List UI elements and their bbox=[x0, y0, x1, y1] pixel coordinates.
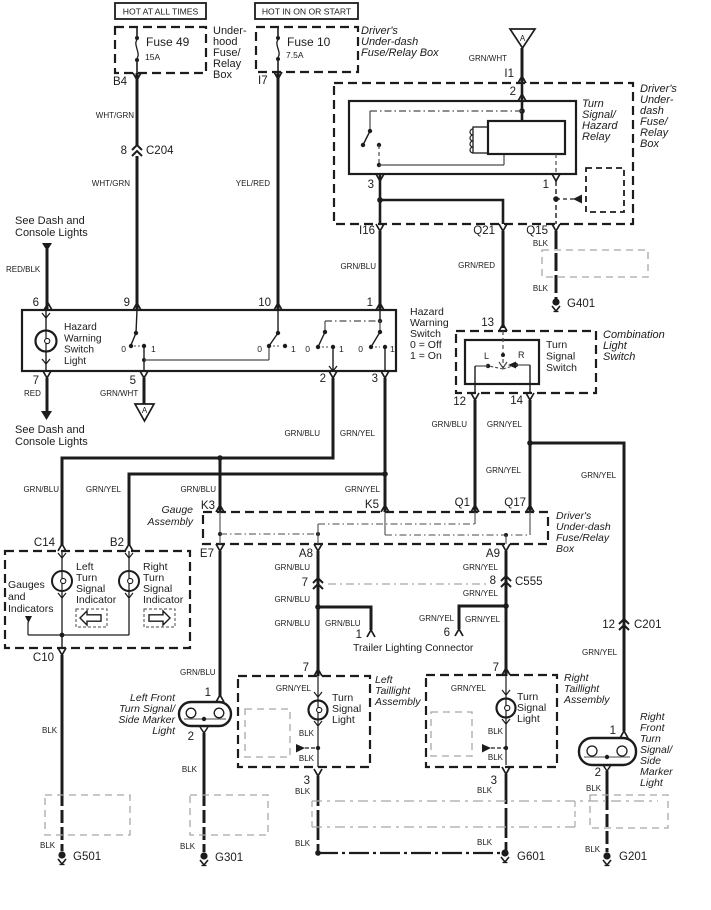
right front turn signal/side marker light bbox=[579, 738, 636, 765]
node GRN/BLU to K3 bbox=[217, 455, 223, 461]
wire 13 label bbox=[481, 317, 507, 331]
pin 3 bbox=[372, 371, 389, 385]
svg-text:Light: Light bbox=[517, 713, 540, 725]
svg-text:GRN/YEL: GRN/YEL bbox=[451, 684, 487, 693]
hazard feed rail from pin 1 bbox=[325, 310, 382, 323]
ground G601 bbox=[501, 849, 508, 856]
wire GRN/YEL to trailer connector 6 bbox=[419, 606, 506, 639]
svg-text:BLK: BLK bbox=[299, 754, 315, 763]
svg-text:R: R bbox=[518, 350, 525, 360]
wire pin 2 into relay bbox=[510, 83, 526, 121]
svg-text:BLK: BLK bbox=[180, 842, 196, 851]
pin 3 left taillight bbox=[304, 769, 322, 787]
under-hood fuse/relay box (dashed) bbox=[115, 27, 206, 73]
svg-text:GRN/BLU: GRN/BLU bbox=[431, 420, 467, 429]
svg-text:1: 1 bbox=[205, 687, 211, 699]
svg-text:Warning: Warning bbox=[64, 333, 102, 344]
svg-text:BLK: BLK bbox=[295, 787, 311, 796]
branch arrow to other circuit bbox=[556, 195, 584, 204]
wire RED/BLK to hazard pin 6 bbox=[6, 249, 47, 310]
svg-text:Light: Light bbox=[640, 777, 664, 789]
ground G301 bbox=[200, 852, 207, 859]
relay switch contact bbox=[377, 143, 381, 147]
connector 7 on A8 wire bbox=[302, 577, 323, 589]
pin 1 left front light bbox=[205, 687, 224, 702]
pin 7 right taillight bbox=[493, 662, 510, 675]
svg-text:K3: K3 bbox=[201, 500, 215, 512]
svg-text:Box: Box bbox=[213, 69, 232, 81]
svg-text:GRN/YEL: GRN/YEL bbox=[581, 471, 617, 480]
other-circuit faint box (G501) bbox=[45, 795, 130, 835]
connector Q1 bbox=[455, 497, 479, 512]
pin 5 bbox=[130, 371, 148, 387]
connector I1 at box edge bbox=[518, 76, 526, 83]
right taillight turn signal bulb bbox=[451, 675, 516, 724]
left turn signal indicator bbox=[52, 551, 72, 635]
svg-text:GRN/YEL: GRN/YEL bbox=[465, 615, 501, 624]
wire BLK left front light to G301 bbox=[180, 733, 204, 852]
wire GRN/BLU E7 to left front light bbox=[180, 551, 220, 696]
svg-text:BLK: BLK bbox=[477, 838, 493, 847]
connector I7 bbox=[258, 72, 282, 87]
svg-text:2: 2 bbox=[320, 373, 326, 385]
node pin3/Q21 bbox=[377, 197, 383, 203]
node GRN/YEL branch to C201 bbox=[527, 440, 533, 446]
other-circuit dashed sub-box bbox=[586, 168, 624, 212]
svg-text:Light: Light bbox=[64, 356, 86, 367]
svg-text:BLK: BLK bbox=[488, 753, 504, 762]
svg-text:GRN/YEL: GRN/YEL bbox=[419, 614, 455, 623]
svg-text:BLK: BLK bbox=[585, 845, 601, 854]
svg-text:9: 9 bbox=[124, 297, 130, 309]
svg-text:BLK: BLK bbox=[40, 841, 56, 850]
svg-text:GRN/YEL: GRN/YEL bbox=[463, 563, 499, 572]
pin 2 left front light bbox=[188, 727, 208, 743]
svg-text:GRN/YEL: GRN/YEL bbox=[345, 485, 381, 494]
svg-text:GRN/BLU: GRN/BLU bbox=[284, 429, 320, 438]
node trailer branch right bbox=[503, 603, 509, 609]
svg-text:Light: Light bbox=[152, 725, 176, 737]
relay armature box bbox=[488, 121, 565, 154]
svg-text:13: 13 bbox=[481, 317, 494, 329]
svg-text:3: 3 bbox=[304, 775, 310, 787]
svg-text:Switch: Switch bbox=[64, 345, 94, 356]
svg-text:7.5A: 7.5A bbox=[286, 50, 304, 60]
svg-text:Signal: Signal bbox=[546, 351, 575, 363]
svg-text:3: 3 bbox=[368, 179, 374, 191]
svg-text:1: 1 bbox=[291, 344, 296, 354]
svg-text:0: 0 bbox=[121, 344, 126, 354]
svg-text:C14: C14 bbox=[34, 537, 56, 549]
pin 1 right front light bbox=[610, 725, 628, 738]
svg-text:Light: Light bbox=[332, 714, 355, 726]
connector C555 bbox=[490, 575, 543, 588]
svg-text:15A: 15A bbox=[145, 52, 160, 62]
relay pin1 internal link bbox=[555, 154, 557, 174]
svg-text:C204: C204 bbox=[146, 145, 174, 157]
svg-text:BLK: BLK bbox=[586, 784, 602, 793]
svg-text:1: 1 bbox=[610, 725, 616, 737]
wire BLK right taillight to G601 bbox=[477, 774, 506, 853]
node GRN/YEL to B2 bbox=[382, 471, 388, 477]
connector K3 bbox=[201, 500, 224, 512]
svg-text:Assembly: Assembly bbox=[146, 516, 193, 528]
driver's under-dash fuse/relay box (dashed, relay) bbox=[334, 83, 633, 224]
right taillight ground path bbox=[482, 717, 508, 765]
svg-text:2: 2 bbox=[188, 731, 194, 743]
svg-text:G401: G401 bbox=[567, 298, 595, 310]
pin 7 bbox=[33, 371, 51, 387]
svg-text:GRN/BLU: GRN/BLU bbox=[325, 619, 361, 628]
svg-text:7: 7 bbox=[302, 577, 308, 589]
off-page connector A (top) bbox=[510, 29, 535, 48]
wire BLK C10 to G501 bbox=[40, 655, 62, 851]
svg-text:0: 0 bbox=[257, 344, 262, 354]
other-circuit faint box (G201) bbox=[590, 795, 668, 828]
svg-text:BLK: BLK bbox=[182, 765, 198, 774]
relay contact to node link bbox=[377, 145, 504, 167]
relay pin 3 bbox=[368, 174, 384, 191]
wire GRN/BLU branch to K3 bbox=[180, 458, 220, 512]
svg-text:BLK: BLK bbox=[295, 839, 311, 848]
connector C201 bbox=[602, 619, 661, 631]
svg-text:GRN/BLU: GRN/BLU bbox=[274, 619, 310, 628]
faint link to other circuits bbox=[328, 583, 489, 585]
svg-text:BLK: BLK bbox=[488, 727, 504, 736]
right arrow icon bbox=[144, 609, 175, 627]
wire GRN/YEL to right front light bbox=[530, 443, 624, 731]
node trailer branch left bbox=[315, 604, 321, 610]
wire GRN/WHT A to I1 bbox=[469, 48, 522, 83]
svg-text:7: 7 bbox=[33, 375, 39, 387]
svg-text:GRN/YEL: GRN/YEL bbox=[486, 466, 522, 475]
connector C14 bbox=[34, 537, 66, 551]
svg-text:7: 7 bbox=[493, 662, 499, 674]
hazard contact set 3 (to pin 2) bbox=[305, 321, 344, 371]
svg-text:10: 10 bbox=[258, 297, 271, 309]
svg-text:A: A bbox=[142, 406, 148, 415]
svg-text:GRN/RED: GRN/RED bbox=[458, 261, 495, 270]
svg-text:2: 2 bbox=[510, 86, 516, 98]
svg-text:K5: K5 bbox=[365, 499, 379, 511]
svg-text:C10: C10 bbox=[33, 652, 54, 664]
wire BLK right front light to G201 bbox=[585, 771, 607, 854]
svg-text:GRN/BLU: GRN/BLU bbox=[274, 563, 310, 572]
svg-text:Switch: Switch bbox=[546, 362, 577, 374]
wire GRN/YEL pin 3 to K5 bbox=[340, 378, 385, 512]
pin 1 bbox=[367, 297, 384, 310]
wire BLK Q15 to G401 bbox=[533, 231, 556, 299]
svg-text:2: 2 bbox=[595, 767, 601, 779]
pin 7 left taillight bbox=[303, 662, 322, 676]
wire GRN/BLU to trailer connector 1 bbox=[274, 607, 375, 641]
off-page arrow to dash lights bbox=[42, 243, 52, 251]
connector B2 bbox=[110, 537, 133, 551]
pin 3 right taillight bbox=[491, 767, 510, 787]
relay coil bbox=[470, 127, 488, 153]
left front turn signal/side marker light bbox=[179, 702, 231, 726]
svg-text:BLK: BLK bbox=[42, 726, 58, 735]
svg-text:Box: Box bbox=[640, 138, 659, 150]
other-circuit faint box at G401 bbox=[542, 250, 648, 277]
svg-text:GRN/YEL: GRN/YEL bbox=[340, 429, 376, 438]
left taillight assembly box (dashed) bbox=[238, 676, 370, 767]
svg-text:Switch: Switch bbox=[603, 351, 635, 363]
relay internal dash-dot link bbox=[370, 110, 522, 112]
svg-text:7: 7 bbox=[303, 662, 309, 674]
svg-text:Console Lights: Console Lights bbox=[15, 436, 88, 448]
relay pin 1 bbox=[543, 174, 560, 191]
svg-text:1: 1 bbox=[543, 179, 549, 191]
turn signal switch internals bbox=[475, 331, 530, 393]
svg-text:Fuse 10: Fuse 10 bbox=[287, 35, 331, 49]
svg-text:I16: I16 bbox=[359, 225, 375, 237]
hazard switch light bulb bbox=[36, 310, 57, 371]
connector Q21 bbox=[473, 224, 507, 237]
svg-text:Q1: Q1 bbox=[455, 497, 470, 509]
connector I16 bbox=[359, 224, 384, 237]
svg-text:BLK: BLK bbox=[533, 284, 549, 293]
svg-text:1: 1 bbox=[367, 297, 373, 309]
svg-text:Box: Box bbox=[556, 543, 575, 555]
internal link K3-E7-A8-Q1 bbox=[218, 512, 475, 544]
svg-text:GRN/BLU: GRN/BLU bbox=[340, 262, 376, 271]
svg-text:I1: I1 bbox=[504, 68, 514, 80]
svg-text:Hazard: Hazard bbox=[64, 322, 97, 333]
svg-text:Gauge: Gauge bbox=[161, 504, 193, 516]
combination light switch box (dashed) bbox=[456, 331, 596, 393]
left arrow icon bbox=[76, 609, 107, 627]
svg-text:HOT AT ALL TIMES: HOT AT ALL TIMES bbox=[123, 7, 199, 17]
driver's under-dash fuse box (dashed, top) bbox=[256, 27, 358, 72]
pin 12 bbox=[453, 393, 479, 408]
svg-text:1: 1 bbox=[339, 344, 344, 354]
svg-text:Assembly: Assembly bbox=[563, 694, 610, 706]
svg-text:Fuse 49: Fuse 49 bbox=[146, 35, 190, 49]
svg-text:RED/BLK: RED/BLK bbox=[6, 265, 41, 274]
wire pin3 junction to Q21 bbox=[380, 200, 503, 224]
svg-text:G301: G301 bbox=[215, 852, 243, 864]
svg-text:6: 6 bbox=[33, 297, 39, 309]
pin 10 bbox=[258, 297, 282, 310]
svg-text:GRN/YEL: GRN/YEL bbox=[463, 589, 499, 598]
svg-text:Gauges: Gauges bbox=[8, 579, 45, 591]
svg-text:GRN/BLU: GRN/BLU bbox=[180, 668, 216, 677]
svg-text:6: 6 bbox=[444, 627, 450, 639]
connector C10 bbox=[33, 648, 66, 664]
wire relay pin1 to Q15 (dash-dot) bbox=[555, 181, 557, 224]
driver's under-dash fuse/relay box (dashed, middle) bbox=[203, 512, 548, 544]
wire BLK join to G601 bbox=[318, 852, 503, 854]
connector A9 bbox=[486, 544, 510, 560]
svg-text:I7: I7 bbox=[258, 75, 268, 87]
wire WHT/GRN B4 to C204 bbox=[96, 73, 137, 145]
connector B4 bbox=[113, 73, 141, 88]
fuse 49 15A bbox=[135, 27, 190, 73]
other-circuit faint box in right taillight bbox=[431, 712, 472, 756]
svg-text:BLK: BLK bbox=[299, 729, 315, 738]
pin 9 bbox=[124, 297, 141, 310]
right taillight assembly box (dashed) bbox=[426, 675, 557, 767]
ground G201 bbox=[603, 852, 610, 859]
svg-text:GRN/WHT: GRN/WHT bbox=[469, 54, 507, 63]
svg-text:G601: G601 bbox=[517, 851, 545, 863]
svg-text:8: 8 bbox=[490, 575, 496, 587]
turn signal/hazard relay box bbox=[349, 101, 576, 174]
connector E7 bbox=[200, 544, 224, 560]
wire GRN/YEL 14 to Q17 bbox=[486, 400, 530, 512]
wire BLK left taillight to G601 bbox=[295, 776, 318, 853]
connector K5 bbox=[365, 499, 389, 512]
internal link K5-Q17-A9 bbox=[385, 512, 530, 544]
svg-text:A9: A9 bbox=[486, 548, 500, 560]
hazard warning switch box bbox=[22, 310, 396, 371]
relay switch lever bbox=[361, 111, 372, 147]
svg-text:Relay: Relay bbox=[582, 131, 612, 143]
pin 6 bbox=[33, 297, 52, 310]
left taillight ground path bbox=[296, 719, 320, 767]
svg-text:1: 1 bbox=[151, 344, 156, 354]
indicator common node bbox=[25, 616, 129, 648]
connector A8 bbox=[299, 544, 322, 560]
svg-text:12: 12 bbox=[453, 396, 466, 408]
hazard contact set 2 (pin 10) bbox=[257, 310, 296, 354]
svg-text:BLK: BLK bbox=[533, 239, 549, 248]
svg-text:14: 14 bbox=[510, 395, 523, 407]
wire GRN/BLU A8 down bbox=[274, 551, 318, 676]
pin 2 bbox=[320, 371, 337, 385]
svg-text:B4: B4 bbox=[113, 76, 128, 88]
power header box HOT IN ON OR START bbox=[255, 3, 358, 19]
ground G401 bbox=[552, 298, 559, 305]
wire GRN/WHT pin 5 to connector A bbox=[100, 378, 144, 404]
svg-text:Assembly: Assembly bbox=[374, 696, 421, 708]
svg-text:Q21: Q21 bbox=[473, 225, 495, 237]
svg-text:RED: RED bbox=[24, 389, 41, 398]
svg-text:Indicator: Indicator bbox=[143, 594, 184, 606]
right turn signal indicator bbox=[119, 551, 139, 635]
wire RED pin 7 to dash lights bbox=[24, 378, 52, 420]
svg-text:B2: B2 bbox=[110, 537, 124, 549]
connector Q15 bbox=[526, 224, 560, 237]
svg-text:GRN/YEL: GRN/YEL bbox=[276, 684, 312, 693]
other-circuit faint lines (bottom middle) bbox=[312, 801, 658, 827]
left taillight turn signal bulb bbox=[276, 676, 328, 726]
hazard contact set 4 (to pin 3) bbox=[358, 321, 395, 371]
svg-text:Fuse/Relay Box: Fuse/Relay Box bbox=[361, 47, 439, 59]
svg-text:0: 0 bbox=[358, 344, 363, 354]
wire GRN/YEL A9 down bbox=[463, 551, 506, 676]
node left taillight ground join bbox=[315, 850, 321, 856]
svg-text:8: 8 bbox=[121, 145, 127, 157]
svg-text:Turn: Turn bbox=[546, 339, 567, 351]
svg-text:WHT/GRN: WHT/GRN bbox=[96, 111, 134, 120]
connector C204 bbox=[121, 145, 175, 157]
wire GRN/BLU 12 to Q1 bbox=[431, 400, 475, 512]
turn signal switch box bbox=[465, 340, 539, 384]
svg-text:GRN/BLU: GRN/BLU bbox=[274, 595, 310, 604]
fuse 10 7.5A bbox=[276, 27, 331, 72]
svg-text:WHT/GRN: WHT/GRN bbox=[92, 179, 130, 188]
off-page connector A (bottom) bbox=[135, 404, 154, 421]
svg-text:See Dash and: See Dash and bbox=[15, 424, 85, 436]
svg-text:3: 3 bbox=[372, 373, 378, 385]
svg-text:E7: E7 bbox=[200, 548, 214, 560]
svg-text:Indicator: Indicator bbox=[76, 594, 117, 606]
ground G501 bbox=[58, 851, 65, 858]
power header box HOT AT ALL TIMES bbox=[115, 3, 206, 19]
wire YEL/RED I7 to hazard switch pin 10 bbox=[236, 72, 278, 310]
svg-text:GRN/BLU: GRN/BLU bbox=[23, 485, 59, 494]
svg-text:1 = On: 1 = On bbox=[410, 350, 442, 362]
connector Q17 bbox=[504, 497, 534, 512]
svg-text:L: L bbox=[484, 351, 489, 361]
svg-text:GRN/WHT: GRN/WHT bbox=[100, 389, 138, 398]
svg-text:HOT IN ON OR START: HOT IN ON OR START bbox=[262, 7, 352, 17]
svg-text:1: 1 bbox=[356, 629, 362, 641]
svg-text:GRN/YEL: GRN/YEL bbox=[86, 485, 122, 494]
wire set1 to pin 5 and set 2 bbox=[142, 346, 269, 371]
svg-text:G201: G201 bbox=[619, 851, 647, 863]
svg-text:GRN/YEL: GRN/YEL bbox=[487, 420, 523, 429]
wire GRN/BLU I16 to hazard pin 1 bbox=[340, 231, 380, 310]
svg-text:See Dash and: See Dash and bbox=[15, 215, 85, 227]
svg-text:Q15: Q15 bbox=[526, 225, 548, 237]
svg-text:C201: C201 bbox=[634, 619, 662, 631]
wire WHT/GRN C204 to hazard switch pin 9 bbox=[92, 156, 137, 310]
svg-text:0: 0 bbox=[305, 344, 310, 354]
svg-text:5: 5 bbox=[130, 375, 136, 387]
svg-text:Indicators: Indicators bbox=[8, 603, 54, 615]
svg-text:G501: G501 bbox=[73, 851, 101, 863]
wire relay pin 3 to I16 bbox=[379, 174, 382, 224]
svg-text:Q17: Q17 bbox=[504, 497, 526, 509]
relay internal node pin2 bbox=[519, 108, 525, 114]
svg-text:GRN/BLU: GRN/BLU bbox=[180, 485, 216, 494]
svg-text:Trailer Lighting Connector: Trailer Lighting Connector bbox=[353, 642, 474, 654]
svg-text:1: 1 bbox=[390, 344, 395, 354]
node pin1 branch bbox=[553, 196, 559, 202]
other-circuit faint box (G301) bbox=[190, 795, 268, 835]
svg-text:YEL/RED: YEL/RED bbox=[236, 179, 270, 188]
gauges and indicators box (dashed) bbox=[5, 551, 190, 648]
wire GRN/BLU pin 2 to C14/K3 bbox=[23, 378, 333, 545]
svg-text:and: and bbox=[8, 591, 26, 603]
other-circuit faint box in left taillight bbox=[245, 709, 290, 757]
svg-text:12: 12 bbox=[602, 619, 615, 631]
hazard contact set 1 (pin 9) bbox=[121, 310, 156, 354]
svg-text:BLK: BLK bbox=[477, 786, 493, 795]
wire GRN/RED Q21 to turn signal switch 13 bbox=[458, 231, 503, 328]
wire GRN/YEL branch to B2 bbox=[86, 474, 385, 545]
pin 14 bbox=[510, 393, 534, 407]
svg-text:Console Lights: Console Lights bbox=[15, 227, 88, 239]
svg-text:A8: A8 bbox=[299, 548, 313, 560]
pin 2 right front light bbox=[595, 765, 611, 779]
svg-text:GRN/YEL: GRN/YEL bbox=[582, 648, 618, 657]
svg-text:C555: C555 bbox=[515, 576, 543, 588]
svg-text:A: A bbox=[520, 34, 526, 43]
